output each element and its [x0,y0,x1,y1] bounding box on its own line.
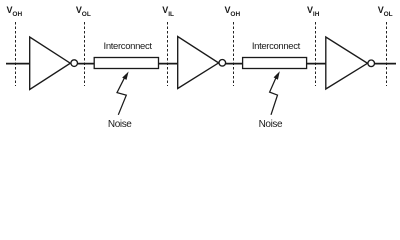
svg-text:Noise: Noise [108,119,132,130]
svg-text:IL: IL [168,11,174,18]
svg-text:Interconnect: Interconnect [104,41,153,52]
svg-text:OL: OL [82,11,91,18]
svg-text:Noise: Noise [259,119,283,130]
svg-text:OH: OH [230,11,240,18]
svg-text:IH: IH [313,11,320,18]
svg-text:Interconnect: Interconnect [252,41,301,52]
svg-text:OH: OH [12,11,22,18]
svg-text:OL: OL [384,11,393,18]
